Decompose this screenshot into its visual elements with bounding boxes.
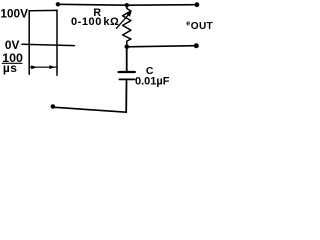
output wire (node X to lower output terminal) — [127, 46, 196, 47]
resistor R zigzag (variable, 0-100 kΩ) — [123, 7, 131, 45]
dimension arrowhead right (points right) — [49, 65, 55, 69]
capacitor top lead — [126, 47, 128, 71]
fraction bar — [2, 62, 22, 64]
svg-text:e: e — [186, 21, 190, 28]
svg-text:0.01µF: 0.01µF — [135, 75, 170, 87]
variable resistor arrow shaft — [116, 14, 129, 29]
dimension arrowhead left (points right) — [31, 65, 37, 69]
capacitor C bottom plate — [119, 78, 134, 80]
output terminal top-right — [195, 2, 200, 7]
top wire — [58, 3, 197, 6]
pulse waveform right edge / right tick — [56, 10, 58, 75]
pulse waveform left edge / left tick — [28, 11, 30, 75]
svg-text:µs: µs — [3, 61, 18, 75]
junction node (top of R) — [125, 3, 129, 7]
dimension arrow line (100 µs width) — [30, 66, 56, 68]
bottom wire — [53, 107, 126, 112]
svg-text:100V: 100V — [0, 7, 28, 21]
node X junction (R-C midpoint) — [125, 45, 130, 50]
pulse waveform top edge — [29, 9, 57, 11]
input terminal bottom-left — [51, 104, 56, 109]
svg-text:OUT: OUT — [191, 21, 214, 32]
0V baseline — [22, 44, 75, 45]
capacitor bottom lead — [125, 80, 127, 112]
input terminal top-left — [56, 2, 60, 6]
variable resistor arrowhead — [126, 11, 132, 17]
capacitor C top plate — [119, 71, 135, 73]
output terminal lower-right — [194, 43, 199, 48]
svg-text:0-100 kΩ: 0-100 kΩ — [71, 16, 119, 28]
